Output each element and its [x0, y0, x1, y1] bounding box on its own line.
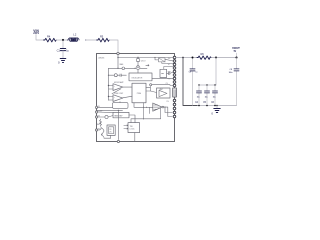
resistor R3 (output) [197, 56, 211, 59]
cs amp triangle [159, 90, 167, 96]
inductor L1 [67, 38, 86, 41]
feedback diagonal wire [112, 89, 121, 94]
svg-text:ERROR AMP: ERROR AMP [114, 81, 124, 84]
wire C1 to ground [62, 51, 64, 59]
junction on internal vin wire [117, 57, 118, 58]
capacitor C1 [60, 49, 65, 51]
internal ref divider wire [108, 68, 110, 100]
wire output rail [176, 57, 197, 59]
svg-text:BANDGAP: BANDGAP [114, 114, 123, 117]
pin COMP (left) [95, 111, 97, 113]
wire node A down to C1 [62, 40, 64, 48]
internal UVLO cap [137, 58, 139, 66]
osc output wires to pads [152, 77, 173, 79]
svg-text:1u: 1u [66, 50, 69, 53]
pwm logic block [132, 83, 146, 102]
capacitor C9 bypass [190, 58, 195, 106]
ground 0 (input) [60, 59, 66, 63]
svg-text:C6: C6 [211, 101, 215, 104]
svg-text:OSCILLATOR: OSCILLATOR [131, 76, 143, 79]
pin pads right edge [173, 56, 176, 118]
capacitor C5 [206, 85, 208, 106]
wire R2 to IC top pin [109, 40, 118, 53]
capacitor C4 [198, 85, 200, 106]
wire R1 to node A [56, 39, 68, 41]
svg-text:VC: VC [168, 64, 171, 66]
current sense amp box [157, 88, 171, 98]
error amplifier [113, 84, 123, 91]
wire VOUT stem [236, 53, 238, 58]
svg-text:BIAS: BIAS [120, 63, 124, 66]
svg-text:VOUT: VOUT [232, 46, 240, 50]
comparator output wire [123, 96, 132, 98]
oscillator block [129, 73, 152, 81]
tsd box [128, 123, 140, 133]
wire output gnd return [183, 58, 198, 106]
driver input wire [134, 103, 153, 108]
svg-text:SW: SW [168, 58, 171, 60]
resistor R1 [44, 38, 57, 42]
error amp output wire [123, 86, 132, 88]
svg-text:LM5085: LM5085 [98, 57, 104, 59]
svg-text:BST: BST [168, 71, 171, 73]
internal current source I1 [136, 66, 140, 70]
internal cs row [109, 74, 127, 76]
limit box wires to pads [162, 59, 174, 63]
pin VIN (top) [117, 52, 119, 54]
pad block [173, 88, 177, 97]
vref generator box [107, 125, 115, 135]
internal VIN rail [118, 57, 173, 59]
wire from VIN port down and right [36, 35, 44, 41]
ground 0 (output) [216, 106, 218, 109]
svg-text:100u: 100u [229, 72, 233, 74]
svg-text:R5: R5 [100, 35, 104, 39]
wire ref to tsd [129, 115, 135, 123]
svg-text:2R: 2R [109, 131, 112, 133]
internal pad circle [150, 84, 152, 86]
svg-text:R4: R4 [47, 35, 51, 39]
svg-text:10u: 10u [205, 96, 209, 98]
internal bias source I2 [109, 67, 148, 69]
svg-text:+: + [114, 97, 116, 99]
driver output wires to pads [164, 107, 172, 112]
wire COMP internal [97, 111, 113, 114]
svg-text:+: + [114, 86, 116, 88]
svg-text:1u: 1u [195, 72, 197, 74]
cap bank top rail [199, 84, 216, 86]
wire logic bottom rail [97, 109, 123, 111]
thermal sense squiggle [97, 128, 104, 138]
wire R3 to VOUT [211, 57, 236, 59]
svg-text:C5: C5 [203, 101, 207, 104]
bandgap reference box [113, 112, 129, 117]
svg-text:PWM: PWM [137, 93, 142, 95]
svg-text:5V: 5V [234, 51, 237, 53]
ldo box [160, 69, 167, 77]
driver return wires [131, 103, 161, 123]
pwm comparator [113, 95, 123, 102]
svg-text:10u: 10u [197, 96, 201, 98]
svg-text:PWM COMP: PWM COMP [114, 93, 124, 95]
capacitor C6 [214, 85, 216, 106]
arrow to PWM [146, 65, 149, 66]
svg-text:C9: C9 [189, 72, 192, 74]
resistor (internal, vertical) [99, 119, 101, 126]
svg-text:AMP: AMP [160, 88, 164, 91]
svg-text:RT: RT [169, 78, 171, 80]
wire SS internal with source [97, 116, 105, 118]
node A junction [62, 39, 64, 41]
svg-text:C4: C4 [195, 101, 199, 104]
gate driver [153, 103, 162, 111]
svg-text:R6: R6 [201, 52, 205, 56]
svg-text:UVLO: UVLO [141, 60, 146, 62]
wire node B down to cap bank [215, 58, 217, 86]
op-amp U1 block outline [97, 54, 175, 142]
wire top pin internal down [117, 55, 119, 68]
cap bank bottom rail [198, 105, 237, 107]
svg-text:0: 0 [211, 112, 213, 116]
svg-text:10u: 10u [213, 96, 217, 98]
svg-text:L2: L2 [73, 33, 77, 37]
wire FB internal [97, 106, 112, 108]
soft start loop box [113, 103, 129, 109]
pin GND (bottom) [117, 140, 119, 142]
capacitor C8 output [236, 58, 238, 106]
resistor R2 [97, 38, 110, 42]
internal limit box [159, 58, 166, 62]
logic to driver wires [146, 87, 151, 91]
svg-text:PG: PG [167, 101, 170, 103]
svg-text:GND: GND [96, 124, 100, 126]
svg-text:0: 0 [58, 61, 60, 65]
svg-text:C8: C8 [230, 69, 233, 71]
pin SS (left) [95, 116, 97, 118]
node B junction [215, 56, 217, 58]
wire L1 to R2 [86, 39, 97, 41]
svg-text:LOGIC: LOGIC [130, 129, 136, 131]
wire center down to gnd pin [117, 110, 119, 139]
pin FB (left) [95, 106, 97, 108]
